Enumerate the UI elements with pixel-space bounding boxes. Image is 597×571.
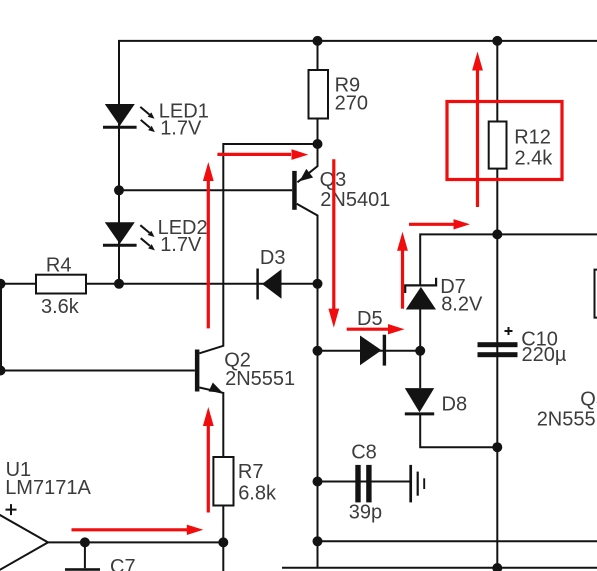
node Q3 emitter / R9 <box>313 139 323 149</box>
svg-text:3.6k: 3.6k <box>41 296 80 318</box>
annotation red box around R12 <box>447 102 562 180</box>
svg-text:2.4k: 2.4k <box>515 148 554 170</box>
ground <box>411 465 425 503</box>
node R7 bottom <box>218 537 228 547</box>
wire LED junction to Q3 base <box>119 189 292 191</box>
svg-text:C7: C7 <box>110 556 136 571</box>
diode D8 <box>405 388 467 415</box>
diode D5 <box>357 308 384 366</box>
wire D7 cathode to R12 node <box>420 234 597 284</box>
wire left-edge feedback <box>0 284 2 371</box>
annotation arrow right at op-amp output <box>72 528 188 531</box>
annotation arrow up through R12 <box>476 71 479 208</box>
wire Q2 collector to Q3 emitter node <box>199 144 317 353</box>
resistor R9 <box>309 70 368 119</box>
svg-text:39p: 39p <box>349 502 382 524</box>
svg-text:6.8k: 6.8k <box>238 482 277 504</box>
node C8 left <box>313 477 323 487</box>
svg-text:8.2V: 8.2V <box>441 294 483 316</box>
wire Q3 emitter stub <box>297 144 317 182</box>
resistor R12 <box>489 122 554 170</box>
node bottom lower rail <box>492 563 502 571</box>
node R4 left edge <box>0 279 6 289</box>
svg-text:R7: R7 <box>238 461 264 483</box>
wire D7 anode to D5 node to D8 <box>419 310 421 389</box>
svg-text:270: 270 <box>335 93 368 115</box>
annotation arrow right above D5 <box>347 328 389 331</box>
svg-text:LM7171A: LM7171A <box>5 477 91 499</box>
resistor R4 <box>36 255 86 319</box>
node C10 / D8 <box>492 442 502 452</box>
capacitor C7 (partial at bottom) <box>65 556 136 571</box>
transistor Q3 (PNP 2N5401) <box>292 169 390 211</box>
wire C7 stub <box>84 542 86 568</box>
wire Q3 collector rail down to bottom <box>297 204 318 568</box>
svg-text:1.7V: 1.7V <box>160 118 202 140</box>
capacitor C8 <box>349 442 382 524</box>
wire bottom lower rail <box>282 567 597 569</box>
wire Q2 base <box>0 370 195 372</box>
node Q2 base left edge <box>0 366 6 376</box>
component box at right edge (partial) <box>595 270 597 318</box>
wire R9 branch <box>317 41 319 144</box>
wire top rail <box>119 41 597 284</box>
svg-text:2N5401: 2N5401 <box>320 189 390 211</box>
svg-text:1.7V: 1.7V <box>160 234 202 256</box>
svg-text:C8: C8 <box>351 442 377 464</box>
node top R9 <box>313 36 323 46</box>
wire C10 rail <box>496 234 498 568</box>
svg-text:D8: D8 <box>442 394 468 416</box>
wire Q2 emitter to R7 to bottom <box>199 388 223 571</box>
capacitor C10 (electrolytic) <box>478 327 567 366</box>
svg-text:Q5: Q5 <box>580 389 597 411</box>
annotation arrow right above D7 <box>409 223 454 226</box>
annotation arrow up to Q3 (long) <box>207 181 210 328</box>
transistor Q5 labels (partial at right) <box>537 389 597 431</box>
node top R12 <box>492 36 502 46</box>
node D3 / Q3 collector <box>313 279 323 289</box>
transistor Q2 (NPN 2N5551) <box>195 350 295 393</box>
svg-text:R12: R12 <box>514 127 551 149</box>
annotation arrow right into Q3 base <box>217 153 291 156</box>
node LED2 / R4 <box>114 279 124 289</box>
node R12 / D7 <box>492 229 502 239</box>
wire R12 branch top <box>496 41 498 235</box>
wire C8 branch <box>318 481 411 483</box>
svg-text:2N5551: 2N5551 <box>225 368 295 390</box>
wire op-amp output rail <box>47 541 224 543</box>
annotation arrow up right of R7 <box>207 426 210 513</box>
annotation arrow down right of Q3 <box>332 159 335 309</box>
diode D3 <box>258 247 286 300</box>
svg-text:D3: D3 <box>260 247 286 269</box>
wire D8 to C10 bottom node <box>420 415 497 448</box>
zener diode D7 <box>405 276 483 316</box>
LED LED1 <box>103 101 209 140</box>
LED LED2 <box>103 217 208 256</box>
svg-text:R4: R4 <box>46 255 72 277</box>
svg-text:220µ: 220µ <box>522 344 567 366</box>
node D5 / D7 / D8 <box>415 346 425 356</box>
node bottom right rail <box>313 536 323 546</box>
wire R4 rail (left edge to D3 node) <box>0 283 318 285</box>
resistor R7 <box>213 457 277 506</box>
wire bottom right rail <box>318 540 597 542</box>
svg-text:D5: D5 <box>357 308 383 330</box>
annotation arrow up left of D7 <box>401 250 404 309</box>
node C7 tap <box>80 537 90 547</box>
node LED1/LED2 junction <box>114 185 124 195</box>
svg-text:2N5551: 2N5551 <box>537 409 597 431</box>
op-amp U1 <box>0 459 91 571</box>
wire D5 branch <box>318 350 421 352</box>
node D5 left <box>313 346 323 356</box>
